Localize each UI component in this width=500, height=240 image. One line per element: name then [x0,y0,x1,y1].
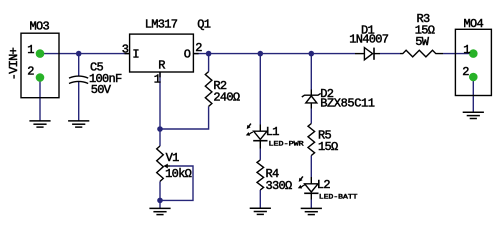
node D2/rail junction [309,51,315,57]
wire C5 top [78,54,80,76]
svg-text:2: 2 [195,41,202,55]
LED L2 cathode bar [304,192,318,194]
diode D1 cathode bar [373,48,375,60]
pin MO3.2 [36,73,45,82]
svg-text:L2: L2 [317,178,331,192]
wire stub D1 anode (black) [355,53,364,55]
svg-text:MO4: MO4 [464,17,484,31]
wire V1 bottom to ground [159,181,161,208]
wire stub D2 anode (black) [310,103,312,109]
wire stub LM317 pin 1 (black) [159,72,161,77]
node ADJ/R2 junction [157,126,163,132]
wire stub L2 cathode (black) [310,193,312,199]
ground R4 [250,207,271,209]
wire D2 anode to R5 [310,109,312,124]
wire L1 cathode to R4 [259,149,261,160]
connector MO4 box [455,29,491,95]
svg-text:MO3: MO3 [30,19,50,33]
diode D1 triangle [364,48,372,60]
wire V1 wiper loop [160,166,193,200]
svg-text:1: 1 [27,43,34,57]
wire L2 cathode to ground [310,200,312,209]
wire C5 bottom to ground [78,81,80,121]
resistor R2 zigzag [205,72,212,107]
wire stub D1 cathode (black) [374,53,380,55]
svg-text:1: 1 [154,73,161,87]
zener D2 cathode bar with hooks [302,93,321,97]
wire R3 to MO4.1 [443,53,473,55]
wire stub LM317 pin 3 (black) [125,53,130,55]
svg-text:I: I [132,48,139,62]
wire L1 branch top [259,54,261,125]
wire R2 bottom to adj node [160,106,209,129]
wire stub L2 anode (black) [310,177,312,184]
resistor R5 zigzag [308,124,315,156]
wire MO4.2 to ground [472,77,474,112]
svg-text:5W: 5W [415,35,430,49]
svg-text:LED-PWR: LED-PWR [269,141,304,148]
svg-text:LM317: LM317 [145,18,178,32]
wire rail MO3.1 to LM317.IN [40,53,130,55]
resistor R3 zigzag [400,50,443,57]
LED L1 light arrows [248,124,251,128]
svg-text:3: 3 [122,42,129,56]
pin MO3.1 [36,49,45,58]
svg-text:240Ω: 240Ω [213,90,240,104]
regulator Q1 LM317 box [130,34,194,72]
resistor R4 zigzag [257,160,264,190]
wire stub L1 anode (black) [259,125,261,132]
svg-text:O: O [184,48,191,62]
connector MO3 box [21,33,59,98]
svg-text:10kΩ: 10kΩ [165,167,192,181]
svg-text:R: R [158,59,165,73]
wire node to V1 top [159,129,161,146]
potentiometer V1 zigzag [157,146,164,181]
node V1 bottom junction [157,198,163,204]
zener D2 triangle [306,96,317,103]
svg-text:1N4007: 1N4007 [349,33,389,47]
wire stub LM317 pin 2 (black) [193,53,198,55]
LED L1 cathode bar [253,140,267,142]
LED L1 triangle [254,131,267,139]
wire stub D2 cathode (black) [310,90,312,96]
wire R2 top [208,54,210,72]
wire R4 to ground [259,190,261,208]
svg-text:2: 2 [27,65,34,79]
pin MO4.2 [469,73,478,82]
svg-text:330Ω: 330Ω [266,179,293,193]
LED L2 light arrows [300,176,303,180]
svg-text:BZX85C11: BZX85C11 [320,97,375,111]
svg-text:50V: 50V [91,83,112,97]
capacitor C5 plates [69,76,88,78]
wire stub L1 cathode (black) [259,141,261,149]
svg-text:2: 2 [462,65,469,79]
svg-text:15Ω: 15Ω [318,140,338,154]
svg-text:LED-BATT: LED-BATT [319,193,358,200]
node L1/rail junction [258,51,264,57]
svg-text:Q1: Q1 [197,18,211,32]
ground C5 [68,120,89,122]
ground L2 [301,207,322,209]
potentiometer V1 wiper arrow [167,165,170,167]
ground MO4.2 [463,111,484,113]
wire D1 cathode to R3 [380,53,400,55]
svg-text:1: 1 [463,43,470,57]
svg-text:L1: L1 [266,125,280,139]
pin MO4.1 [469,49,478,58]
node R2/rail junction [206,51,212,57]
svg-text:-VIN+: -VIN+ [7,47,21,80]
wire rail LM317.OUT to D1 anode [193,53,355,55]
wire LM317.ADJ down to node [159,72,161,129]
wire R5 to L2 [310,156,312,178]
LED L2 triangle [305,184,318,192]
wire D2 branch top [310,54,312,90]
ground V1 [149,207,170,209]
node C5/rail junction [76,51,82,57]
wire MO3.2 to ground [39,78,41,121]
svg-text:V1: V1 [166,151,180,165]
ground MO3.2 [29,120,50,122]
